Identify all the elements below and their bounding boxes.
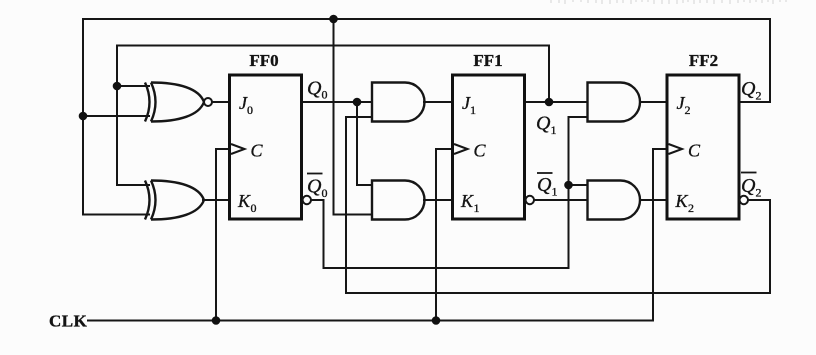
wire Q1 to AND gates <box>525 101 588 103</box>
clock edge triangle FF0 <box>231 144 245 154</box>
wire Q1 riser <box>548 46 550 103</box>
bubble Qbar1 <box>526 196 534 204</box>
wire Qbar1 from bubble <box>534 199 588 201</box>
xor gate G2 <box>145 181 204 220</box>
and gate A3 (J2) <box>588 83 640 122</box>
svg-text:Q: Q <box>537 174 552 196</box>
svg-text:Q: Q <box>536 113 551 135</box>
svg-text:Q: Q <box>307 176 322 198</box>
node Q1 branch <box>545 98 554 107</box>
svg-text:FF1: FF1 <box>473 51 502 70</box>
bubble Qbar2 <box>740 196 748 204</box>
flip-flop FF1 box <box>453 75 525 219</box>
svg-text:C: C <box>474 141 487 161</box>
wire Q0 branch down <box>357 102 372 185</box>
wire XNOR bottom input <box>83 115 149 117</box>
clock edge triangle FF1 <box>454 144 468 154</box>
svg-text:1: 1 <box>470 103 476 117</box>
and gate A1 (J1) <box>372 83 425 122</box>
svg-text:K: K <box>237 191 251 211</box>
node Q2 on top rail <box>329 15 338 24</box>
wire Q2 riser right <box>769 19 771 102</box>
node Qbar0 branch <box>564 181 573 190</box>
svg-text:1: 1 <box>552 185 558 199</box>
svg-text:1: 1 <box>474 201 480 215</box>
svg-text:FF0: FF0 <box>249 51 278 70</box>
svg-text:0: 0 <box>322 88 328 102</box>
svg-text:2: 2 <box>688 201 694 215</box>
wire Qbar0 feedback horizontal <box>324 267 569 269</box>
wire Qbar2 output <box>748 200 770 293</box>
wire XOR bottom input <box>83 214 149 216</box>
svg-text:1: 1 <box>551 123 557 137</box>
svg-text:CLK: CLK <box>49 312 88 331</box>
wire CLK riser FF2 <box>653 149 667 321</box>
wire Qbar0 branch to K2 AND <box>569 184 588 186</box>
flip-flop FF0 box <box>230 75 302 219</box>
svg-text:FF2: FF2 <box>689 51 718 70</box>
wire XNOR output to J0 <box>212 101 230 103</box>
bubble Qbar0 <box>303 196 311 204</box>
wire Qbar2 feedback horizontal <box>346 292 770 294</box>
wire AND K2 output <box>640 199 667 201</box>
wire CLK riser FF0 <box>216 149 230 321</box>
node Q1 to XNOR <box>113 82 122 91</box>
wire top rail Q2 <box>83 18 770 20</box>
wire XOR output to K0 <box>203 199 230 201</box>
faint cropped caption text at top edge <box>551 0 786 4</box>
wire XNOR top input <box>117 85 149 87</box>
wire left vertical Q2 branch <box>82 19 84 215</box>
and gate A2 (K1) <box>372 181 425 220</box>
wire Qbar2 feedback riser <box>346 116 372 118</box>
wire Q2 drop to K1 AND <box>334 19 373 215</box>
wire Qbar0 from bubble <box>311 200 324 268</box>
svg-text:0: 0 <box>322 186 328 200</box>
and gate A4 (K2) <box>588 181 640 220</box>
node CLK FF0 <box>212 316 221 325</box>
wire Q2 output <box>739 101 770 103</box>
wire AND K1 output <box>424 199 453 201</box>
wire AND J1 output <box>424 101 453 103</box>
svg-text:Q: Q <box>741 78 756 100</box>
wire left vertical Q1 branch <box>116 46 118 186</box>
wire CLK line <box>88 320 653 322</box>
clock edge triangle FF2 <box>669 144 683 154</box>
wire Q0 to AND gates <box>302 101 373 103</box>
svg-text:0: 0 <box>247 103 253 117</box>
node Q2 to XNOR <box>79 112 88 121</box>
svg-text:Q: Q <box>741 175 756 197</box>
svg-text:K: K <box>460 191 474 211</box>
wire CLK riser FF1 <box>436 149 453 321</box>
svg-text:2: 2 <box>685 103 691 117</box>
wire second rail Q1 <box>117 45 549 47</box>
xnor gate G1 <box>145 83 212 122</box>
svg-text:0: 0 <box>251 201 257 215</box>
svg-text:K: K <box>675 191 689 211</box>
svg-text:2: 2 <box>756 89 762 103</box>
node Q0 branch <box>353 98 362 107</box>
wire AND J2 output <box>640 101 667 103</box>
node CLK FF1 <box>432 316 441 325</box>
svg-text:C: C <box>251 141 264 161</box>
svg-text:2: 2 <box>756 186 762 200</box>
wire Qbar0 riser to AND pair 2 <box>569 116 588 118</box>
svg-text:C: C <box>688 141 701 161</box>
flip-flop FF2 box <box>667 75 739 219</box>
wire XOR top input <box>117 184 149 186</box>
svg-text:Q: Q <box>307 78 322 100</box>
